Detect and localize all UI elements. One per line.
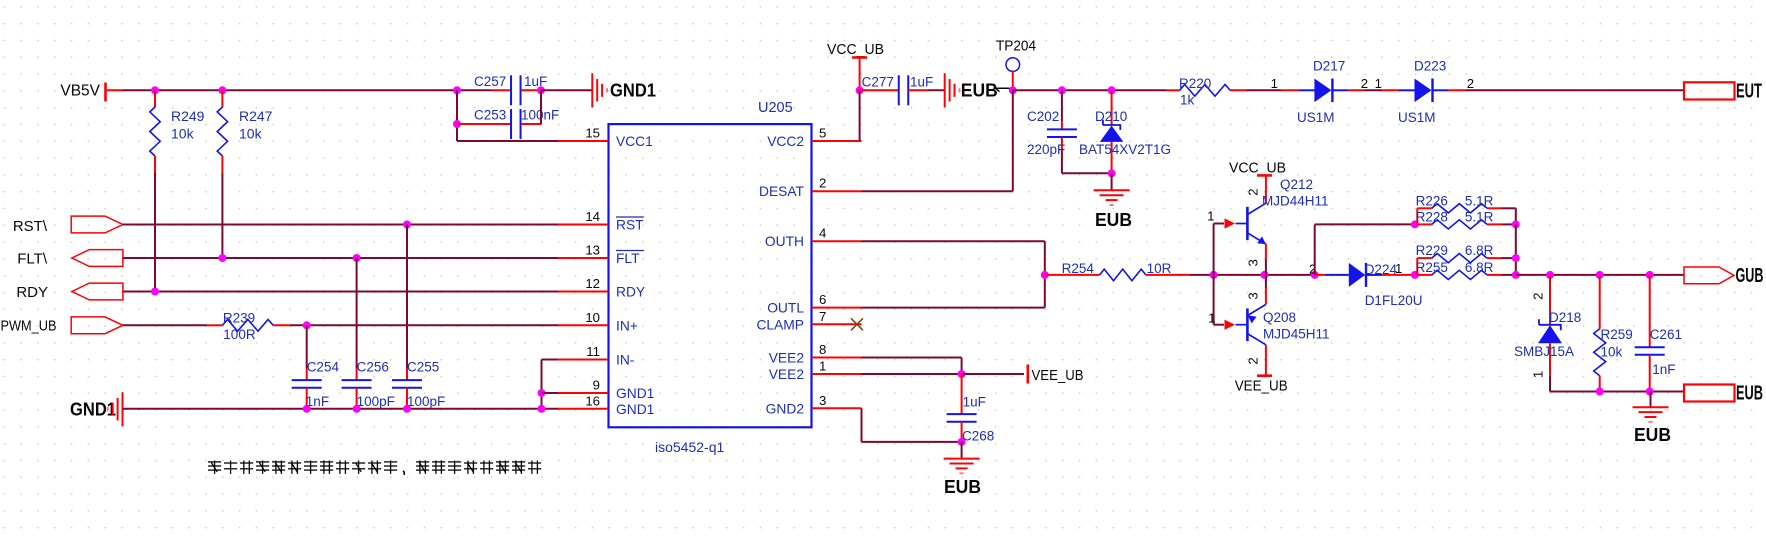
pin2 Q208 label: [1245, 357, 1260, 364]
power ground GND1 left: [70, 392, 123, 426]
pin 1 D223 label: [1375, 76, 1382, 91]
no-connect X pin7: [851, 318, 863, 330]
pin2 Q212 label: [1245, 188, 1260, 195]
svg-text:Q208: Q208: [1263, 310, 1296, 325]
pin 2 D223 label: [1467, 76, 1474, 91]
port FLT\: [17, 250, 123, 268]
svg-text:16: 16: [585, 393, 600, 408]
wire VB5V rail: [123, 89, 492, 91]
svg-text:VCC1: VCC1: [616, 134, 653, 149]
svg-text:C255: C255: [407, 360, 439, 375]
svg-text:TP204: TP204: [996, 38, 1036, 55]
pin 9 GND1: [558, 378, 654, 402]
svg-text:VEE2: VEE2: [769, 367, 804, 382]
wire RST: [123, 224, 558, 226]
power ground EUB bottom: [944, 442, 981, 497]
capacitor C277: [860, 75, 945, 106]
wire C257-GND1: [541, 89, 592, 91]
resistor R220: [1167, 76, 1248, 108]
junction C253 left: [453, 120, 461, 128]
svg-text:FLT\: FLT\: [17, 251, 48, 268]
svg-text:D218: D218: [1549, 310, 1581, 325]
svg-text:iso5452-q1: iso5452-q1: [655, 439, 724, 455]
pin 15 VCC1: [558, 126, 653, 150]
svg-text:C253: C253: [474, 108, 506, 123]
power port VB5V: [60, 83, 122, 102]
svg-text:VCC_UB: VCC_UB: [827, 41, 884, 58]
svg-text:2: 2: [1361, 76, 1368, 91]
svg-text:EUB: EUB: [1095, 210, 1132, 230]
junction C261 top: [1646, 271, 1654, 279]
junction C202 top: [1058, 86, 1066, 94]
wire OUTL: [862, 307, 1045, 309]
svg-text:15: 15: [585, 126, 600, 141]
wire VEE2 pin8: [862, 358, 962, 375]
port EUT: [1684, 81, 1762, 103]
pin3 Q208 label: [1245, 292, 1260, 299]
svg-text:D224: D224: [1365, 262, 1398, 277]
resistor R226: [1416, 193, 1502, 224]
capacitor C256: [342, 258, 395, 409]
power port VCC_UB Q212: [1229, 160, 1286, 177]
svg-text:OUTH: OUTH: [765, 234, 804, 249]
probe arrow: [996, 88, 1010, 91]
svg-text:2: 2: [1245, 357, 1260, 364]
svg-text:4: 4: [819, 226, 826, 241]
wire C253 right up: [540, 90, 542, 124]
svg-text:CLAMP: CLAMP: [756, 317, 804, 332]
svg-text:D223: D223: [1414, 59, 1446, 74]
svg-text:RST: RST: [616, 218, 644, 233]
svg-text:14: 14: [585, 209, 600, 224]
svg-text:VCC_UB: VCC_UB: [1229, 160, 1286, 177]
svg-text:RDY: RDY: [16, 284, 48, 301]
wire R247 to FLT: [221, 173, 223, 258]
svg-text:2: 2: [819, 176, 826, 191]
power port VCC_UB top: [827, 41, 884, 90]
svg-text:1uF: 1uF: [524, 74, 547, 89]
pin 3 GND2: [766, 393, 862, 417]
svg-text:D210: D210: [1095, 109, 1127, 124]
wire OUTH: [862, 241, 1045, 307]
power ground GND1 top: [592, 73, 656, 107]
pin 1 D217 label: [1271, 76, 1278, 91]
svg-text:1nF: 1nF: [1652, 362, 1675, 377]
svg-text:VEE_UB: VEE_UB: [1032, 367, 1084, 384]
svg-text:1uF: 1uF: [910, 75, 933, 90]
svg-text:11: 11: [586, 344, 600, 359]
power port VEE_UB Q208: [1235, 376, 1288, 395]
svg-text:RST\: RST\: [13, 218, 48, 235]
svg-text:EUB: EUB: [944, 477, 981, 497]
svg-text:U205: U205: [758, 100, 793, 116]
svg-text:1: 1: [1395, 261, 1402, 276]
svg-text:R228: R228: [1416, 209, 1448, 224]
resistor R229: [1416, 243, 1502, 275]
resistor R259: [1594, 275, 1633, 392]
svg-text:1k: 1k: [1180, 93, 1195, 108]
diode D210: [1079, 90, 1171, 173]
wire PWM_UB: [123, 324, 207, 326]
pin 6 OUTL: [767, 292, 861, 316]
svg-text:MJD44H11: MJD44H11: [1262, 194, 1329, 209]
junction R259 top: [1596, 271, 1604, 279]
svg-text:PWM_UB: PWM_UB: [1, 318, 57, 335]
svg-text:6.8R: 6.8R: [1465, 243, 1494, 258]
capacitor C253: [457, 108, 559, 140]
svg-text:1uF: 1uF: [963, 395, 986, 410]
svg-text:R255: R255: [1416, 260, 1448, 275]
pin2 D218 label: [1531, 293, 1546, 300]
svg-text:1: 1: [819, 359, 826, 374]
pin1 Q212 label: [1207, 209, 1214, 224]
svg-text:100R: 100R: [223, 327, 256, 342]
wire DESAT net: [862, 90, 1013, 191]
svg-text:6.8R: 6.8R: [1465, 260, 1494, 275]
svg-text:EUB: EUB: [1736, 383, 1763, 405]
port PWM_UB: [1, 317, 123, 335]
resistor R239: [207, 311, 290, 342]
svg-text:Q212: Q212: [1280, 177, 1313, 192]
svg-text:R259: R259: [1601, 327, 1633, 342]
svg-text:C202: C202: [1027, 109, 1059, 124]
svg-text:GND1: GND1: [616, 402, 654, 417]
junction FLT-R247: [218, 254, 226, 262]
svg-text:220pF: 220pF: [1027, 142, 1065, 157]
wire GND1 bus: [123, 408, 559, 410]
svg-text:2: 2: [1531, 293, 1546, 300]
resistor R249: [150, 90, 205, 173]
wire EUB bottom rail: [1550, 391, 1684, 393]
junction D210 top: [1108, 86, 1116, 94]
junction D218 top: [1546, 271, 1554, 279]
wire R229 right: [1501, 258, 1515, 275]
svg-text:8: 8: [819, 342, 826, 357]
junction C257 right: [537, 86, 545, 94]
svg-text:FLT: FLT: [616, 251, 640, 266]
pin 12 RDY: [558, 276, 645, 300]
resistor R247: [217, 90, 272, 173]
capacitor C268: [947, 374, 995, 444]
capacitor C257: [474, 74, 547, 105]
svg-text:10: 10: [585, 310, 600, 325]
pin 5 VCC2: [767, 126, 861, 150]
capacitor C255: [392, 225, 445, 410]
junction R255 right: [1512, 271, 1520, 279]
junction C261 bottom: [1646, 388, 1654, 396]
pin 16 GND1: [558, 393, 654, 417]
pin 1 VEE2: [769, 359, 862, 383]
pin3 Q212 label: [1245, 259, 1260, 266]
svg-text:C277: C277: [862, 75, 894, 90]
svg-text:5.1R: 5.1R: [1465, 209, 1494, 224]
pin 7 CLAMP: [756, 309, 861, 333]
svg-text:12: 12: [585, 276, 600, 291]
junction RST-C255: [403, 221, 411, 229]
wire FLT: [123, 257, 558, 259]
pin 2 DESAT: [759, 176, 861, 200]
svg-text:US1M: US1M: [1398, 110, 1436, 125]
svg-text:VEE2: VEE2: [769, 351, 804, 366]
wire EUB rail top: [1013, 89, 1167, 91]
junction D224 left: [1311, 271, 1319, 279]
svg-text:C256: C256: [357, 360, 389, 375]
svg-text:MJD45H11: MJD45H11: [1263, 327, 1330, 342]
svg-text:10R: 10R: [1147, 261, 1172, 276]
junction pin9 tee: [538, 389, 546, 397]
wire VEE_UB link: [962, 373, 1024, 375]
svg-text:GND2: GND2: [766, 401, 804, 416]
svg-text:5.1R: 5.1R: [1465, 193, 1494, 208]
junction GND1-C254: [303, 405, 311, 413]
svg-text:1: 1: [1271, 76, 1278, 91]
junction VB5V-R247: [218, 86, 226, 94]
test point TP204: [996, 38, 1036, 91]
pin1 D218 label: [1531, 371, 1546, 378]
svg-text:1: 1: [1531, 371, 1546, 378]
svg-text:5: 5: [819, 126, 826, 141]
wire GND2: [862, 408, 962, 442]
svg-text:3: 3: [819, 393, 826, 408]
pin 8 VEE2: [769, 342, 862, 366]
junction emitter bus: [1261, 271, 1269, 279]
junction R254 tap: [1041, 271, 1049, 279]
svg-text:100pF: 100pF: [407, 394, 445, 409]
svg-text:EUT: EUT: [1736, 81, 1762, 103]
pin 4 OUTH: [765, 226, 862, 250]
wire D217-D223: [1364, 89, 1382, 91]
wire VEE2 pin1: [862, 373, 962, 375]
wire R249 to RDY: [154, 173, 156, 292]
svg-text:VB5V: VB5V: [60, 83, 100, 100]
junction R228 right: [1512, 220, 1520, 228]
junction RDY-R249: [151, 288, 159, 296]
svg-text:SMBJ15A: SMBJ15A: [1514, 344, 1574, 359]
svg-text:C261: C261: [1650, 327, 1682, 342]
svg-text:EUB: EUB: [961, 81, 998, 101]
note text filter placement: [208, 461, 541, 476]
svg-text:IN+: IN+: [616, 318, 638, 333]
svg-text:GND1: GND1: [610, 81, 656, 101]
svg-text:R220: R220: [1179, 76, 1211, 91]
svg-text:C268: C268: [962, 429, 994, 444]
transistor Q208: [1214, 275, 1330, 375]
junction R259 bottom: [1596, 388, 1604, 396]
pin 13 FLT: [558, 243, 644, 267]
port GUB: [1684, 265, 1764, 287]
svg-text:IN-: IN-: [616, 353, 634, 368]
svg-text:R247: R247: [239, 108, 273, 124]
junction IN+ C254: [303, 321, 311, 329]
wire GUB rail: [1516, 274, 1684, 276]
junction TP204: [1009, 86, 1017, 94]
wire C202-D210: [1062, 172, 1112, 174]
junction D210 bottom: [1108, 169, 1116, 177]
wire VCC1 branch: [457, 90, 558, 141]
junction GND1 tee: [538, 405, 546, 413]
svg-text:3: 3: [1245, 292, 1260, 299]
svg-text:C254: C254: [307, 360, 340, 375]
svg-text:10k: 10k: [1601, 345, 1623, 360]
wire gate upper branch: [1315, 224, 1415, 275]
svg-text:C257: C257: [474, 74, 506, 89]
wire pin9 stub link: [542, 392, 559, 394]
svg-text:1: 1: [1207, 209, 1214, 224]
svg-text:GND1: GND1: [70, 400, 116, 420]
svg-text:13: 13: [585, 243, 600, 258]
power ground EUB top: [945, 73, 998, 107]
wire base bus: [1190, 274, 1315, 276]
power port VEE_UB: [1028, 365, 1084, 385]
op-amp U1 IC U205 box: [609, 100, 812, 455]
junction R229R255 left: [1411, 271, 1419, 279]
svg-text:GUB: GUB: [1736, 265, 1764, 287]
svg-text:BAT54XV2T1G: BAT54XV2T1G: [1079, 142, 1171, 157]
svg-text:RDY: RDY: [616, 285, 645, 300]
power ground EUB mid: [1094, 173, 1132, 230]
svg-text:10k: 10k: [171, 126, 195, 142]
diode D223: [1382, 59, 1465, 126]
wire EUT rail: [1465, 89, 1684, 91]
port RDY: [16, 283, 123, 301]
svg-text:100pF: 100pF: [357, 394, 395, 409]
pin 10 IN+: [558, 310, 638, 334]
wire R239-IN+: [290, 324, 558, 326]
port EUB: [1684, 383, 1763, 405]
capacitor C261: [1635, 275, 1682, 392]
pin 11 IN-: [558, 344, 634, 368]
svg-text:7: 7: [819, 309, 826, 324]
junction FLT-C256: [353, 254, 361, 262]
pin2 D224 label: [1309, 262, 1316, 277]
pin 2 D217 label: [1361, 76, 1368, 91]
capacitor C202: [1027, 90, 1077, 173]
junction C268 bottom: [958, 438, 966, 446]
svg-text:6: 6: [819, 292, 826, 307]
diode D217: [1281, 59, 1364, 126]
junction VEE2: [958, 370, 966, 378]
resistor R228: [1416, 209, 1502, 229]
junction R229 right: [1512, 254, 1520, 262]
svg-text:VCC2: VCC2: [767, 134, 804, 149]
svg-text:1: 1: [1208, 311, 1215, 326]
junction VCC2 node: [856, 86, 864, 94]
svg-text:D1FL20U: D1FL20U: [1365, 293, 1423, 308]
wire IN- drop: [542, 360, 559, 409]
svg-text:1: 1: [1375, 76, 1382, 91]
svg-text:9: 9: [593, 378, 600, 393]
pin1 Q208 label: [1208, 311, 1215, 326]
svg-text:10k: 10k: [239, 126, 263, 142]
diode D224: [1315, 262, 1423, 308]
svg-text:D217: D217: [1313, 59, 1345, 74]
svg-text:OUTL: OUTL: [767, 301, 804, 316]
wire R226 right: [1501, 208, 1515, 224]
junction VB5V-R249: [151, 86, 159, 94]
svg-text:R229: R229: [1416, 243, 1448, 258]
svg-text:R249: R249: [171, 108, 205, 124]
svg-text:VEE_UB: VEE_UB: [1235, 378, 1288, 395]
pin 14 RST: [558, 209, 644, 233]
wire R220-D217: [1247, 89, 1281, 91]
port RST\: [13, 216, 123, 235]
resistor R255: [1416, 260, 1502, 280]
svg-text:2: 2: [1245, 188, 1260, 195]
junction base tee: [1210, 271, 1218, 279]
wire right gate drop: [1515, 224, 1517, 275]
svg-text:US1M: US1M: [1297, 110, 1335, 125]
wire RDY: [123, 291, 558, 293]
svg-text:EUB: EUB: [1634, 425, 1671, 445]
pin1 D224 label: [1395, 261, 1402, 276]
diode D218: [1514, 275, 1581, 392]
transistor Q212: [1214, 176, 1329, 275]
junction GND1-C256: [353, 405, 361, 413]
resistor R254: [1045, 261, 1190, 281]
wire VCC2 drop: [859, 90, 861, 141]
capacitor C254: [292, 325, 340, 409]
svg-text:GND1: GND1: [616, 386, 654, 401]
junction node C257 left: [453, 86, 461, 94]
svg-text:3: 3: [1245, 259, 1260, 266]
svg-text:DESAT: DESAT: [759, 184, 805, 199]
svg-text:R239: R239: [223, 311, 255, 326]
junction GND1-C255: [403, 405, 411, 413]
svg-text:2: 2: [1467, 76, 1474, 91]
svg-text:R226: R226: [1416, 193, 1448, 208]
power ground EUB right: [1633, 392, 1672, 446]
junction R226R228 left: [1411, 220, 1419, 228]
svg-text:R254: R254: [1062, 261, 1095, 276]
